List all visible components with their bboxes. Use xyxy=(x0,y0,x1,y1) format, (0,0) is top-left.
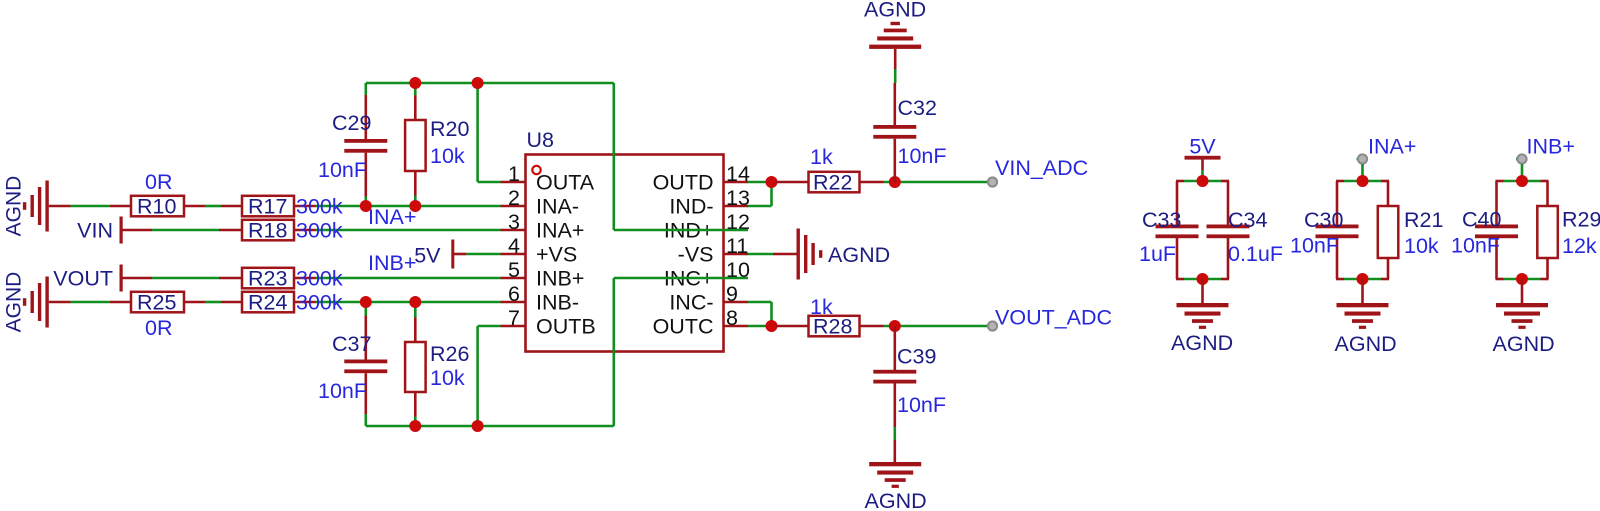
wire R25 to R24 xyxy=(205,301,221,304)
port VIN xyxy=(120,217,153,244)
junction INA- C29 xyxy=(360,200,372,212)
junction bottom rail R26 xyxy=(409,420,421,432)
pin 3 name INA+ xyxy=(536,219,584,243)
svg-text:C39: C39 xyxy=(897,345,936,369)
junction top (INA+ net) xyxy=(1357,175,1369,187)
pin 10 number xyxy=(726,258,750,282)
pin 6 number xyxy=(508,282,520,306)
svg-text:10k: 10k xyxy=(1404,234,1439,258)
pin 8 name OUTC xyxy=(653,315,714,339)
label AGND (middle) xyxy=(828,243,890,267)
svg-text:U8: U8 xyxy=(527,128,555,152)
svg-text:VOUT: VOUT xyxy=(53,267,113,291)
pin 14 number xyxy=(726,162,750,186)
value 10nF (C39) xyxy=(897,393,946,417)
value 300k (R18) xyxy=(296,219,343,243)
resistor R22 xyxy=(776,172,884,193)
pin 4 number xyxy=(508,234,520,258)
svg-text:AGND: AGND xyxy=(1335,332,1397,356)
wire R10 to R17 xyxy=(205,205,221,208)
label AGND (5V net) xyxy=(1171,331,1233,355)
net label INA+ (network) xyxy=(1368,135,1416,159)
pin 10 name INC+ xyxy=(664,267,714,291)
svg-text:AGND: AGND xyxy=(3,176,26,237)
svg-text:+VS: +VS xyxy=(536,243,577,267)
svg-text:300k: 300k xyxy=(296,219,343,243)
pin 8 stub xyxy=(724,325,749,328)
svg-text:7: 7 xyxy=(508,306,520,330)
ground AGND (5V net) xyxy=(1177,279,1229,329)
svg-text:OUTD: OUTD xyxy=(653,171,714,195)
junction INB- R26 xyxy=(409,296,421,308)
wire IND+ riser xyxy=(614,83,748,230)
svg-text:0.1uF: 0.1uF xyxy=(1228,242,1283,266)
junction top (5V net) xyxy=(1197,175,1209,187)
label AGND (INA+ net) xyxy=(1335,332,1397,356)
capacitor C30 xyxy=(1316,181,1359,279)
wire pin1 riser xyxy=(478,83,501,182)
svg-text:10nF: 10nF xyxy=(1451,234,1500,258)
svg-text:5: 5 xyxy=(508,258,520,282)
pin 3 stub xyxy=(501,229,526,232)
resistor R10 xyxy=(110,196,205,217)
pin 11 stub xyxy=(724,253,749,256)
label R22 xyxy=(813,171,852,195)
svg-text:OUTA: OUTA xyxy=(536,171,595,195)
resistor R23 xyxy=(219,268,316,289)
svg-text:AGND: AGND xyxy=(1171,331,1233,355)
pin1 indicator xyxy=(532,166,540,174)
svg-text:R17: R17 xyxy=(248,195,287,219)
ground AGND (top, above C32) xyxy=(869,22,921,69)
pin 7 stub xyxy=(501,325,526,328)
svg-text:C34: C34 xyxy=(1228,208,1267,232)
label C32 xyxy=(898,96,937,120)
wire pin13 feedback xyxy=(748,182,772,206)
junction OUTC node xyxy=(766,320,778,332)
svg-text:300k: 300k xyxy=(296,267,343,291)
svg-text:4: 4 xyxy=(508,234,520,258)
svg-text:10k: 10k xyxy=(430,366,465,390)
pin 2 stub xyxy=(501,205,526,208)
ground AGND (middle, pin11) xyxy=(748,229,822,280)
svg-text:10nF: 10nF xyxy=(897,393,946,417)
wire 5V to pin4 xyxy=(466,253,500,256)
svg-text:R18: R18 xyxy=(248,219,287,243)
label C30 xyxy=(1304,208,1343,232)
pin 4 stub xyxy=(501,253,526,256)
supply 5V (network) xyxy=(1185,156,1221,181)
label R29 xyxy=(1562,208,1600,232)
svg-text:10nF: 10nF xyxy=(898,144,947,168)
label U8 xyxy=(527,128,555,152)
svg-text:VIN: VIN xyxy=(77,219,113,243)
pin 13 number xyxy=(726,186,750,210)
value 10nF (C32) xyxy=(898,144,947,168)
capacitor C34 xyxy=(1207,181,1250,279)
value 10nF (C40) xyxy=(1451,234,1500,258)
wire R18 to pin3 xyxy=(316,229,501,232)
label R20 xyxy=(430,117,469,141)
svg-text:R21: R21 xyxy=(1404,208,1443,232)
value 10k (R20) xyxy=(430,144,465,168)
svg-text:R24: R24 xyxy=(248,291,287,315)
pin 5 number xyxy=(508,258,520,282)
pin 2 name INA- xyxy=(536,195,579,219)
junction top (INB+ net) xyxy=(1516,175,1528,187)
label AGND (left upper) xyxy=(3,176,26,237)
svg-text:C30: C30 xyxy=(1304,208,1343,232)
capacitor C33 xyxy=(1156,181,1199,279)
value 0.1uF (C34) xyxy=(1228,242,1283,266)
junction OUTD node xyxy=(766,176,778,188)
capacitor C39 xyxy=(873,326,916,462)
svg-text:C33: C33 xyxy=(1142,208,1181,232)
supply 5V (pin4) xyxy=(451,240,466,269)
value 10nF (C29) xyxy=(318,158,367,182)
svg-text:AGND: AGND xyxy=(828,243,890,267)
junction VOUT_ADC C39 xyxy=(889,320,901,332)
pin 12 number xyxy=(726,210,750,234)
junction VIN_ADC C32 xyxy=(889,176,901,188)
junction bottom (INA+ net) xyxy=(1357,273,1369,285)
wire AGND to R25 xyxy=(71,301,111,304)
pin 5 name INB+ xyxy=(536,267,584,291)
wire VOUT to R23 xyxy=(152,277,219,280)
resistor R28 xyxy=(776,316,884,337)
net label INB+ (network) xyxy=(1527,135,1575,159)
label R28 xyxy=(813,315,852,339)
pin 14 stub xyxy=(724,181,749,184)
label R18 xyxy=(248,219,287,243)
pin 11 number xyxy=(726,234,748,258)
pin 1 name OUTA xyxy=(536,171,595,195)
resistor R25 xyxy=(110,292,205,313)
wire top rail (INB+ net) xyxy=(1496,180,1549,183)
pin 6 name INB- xyxy=(536,291,579,315)
svg-text:INA+: INA+ xyxy=(368,205,416,229)
label C39 xyxy=(897,345,936,369)
wire top rail xyxy=(366,82,614,85)
svg-text:C37: C37 xyxy=(332,332,371,356)
pin 1 number xyxy=(508,162,520,186)
svg-text:INB+: INB+ xyxy=(1527,135,1575,159)
resistor R24 xyxy=(221,292,316,313)
svg-text:AGND: AGND xyxy=(865,489,927,511)
port INB+ xyxy=(1516,154,1527,181)
svg-text:R10: R10 xyxy=(137,195,176,219)
op-amp U8 xyxy=(526,155,724,352)
label C34 xyxy=(1228,208,1267,232)
pin 9 number xyxy=(726,282,738,306)
svg-text:1: 1 xyxy=(508,162,520,186)
label R26 xyxy=(430,342,469,366)
pin 8 number xyxy=(726,306,738,330)
junction bottom (5V net) xyxy=(1197,273,1209,285)
resistor R21 xyxy=(1378,181,1399,279)
label AGND (top) xyxy=(864,0,926,22)
value 10nF (C37) xyxy=(318,379,367,403)
value 10nF (C30) xyxy=(1290,234,1339,258)
pin 2 number xyxy=(508,186,520,210)
svg-text:10nF: 10nF xyxy=(318,379,367,403)
svg-text:INC-: INC- xyxy=(669,291,713,315)
pin 13 stub xyxy=(724,205,749,208)
svg-text:C29: C29 xyxy=(332,111,371,135)
svg-text:1k: 1k xyxy=(810,145,833,169)
label AGND (bottom) xyxy=(865,489,927,511)
ground AGND (left lower) xyxy=(23,277,71,328)
wire top rail (INA+ net) xyxy=(1336,180,1389,183)
svg-text:R26: R26 xyxy=(430,342,469,366)
label VIN xyxy=(77,219,113,243)
label R25 xyxy=(137,291,176,315)
net label INA+ xyxy=(368,205,416,229)
svg-text:IND-: IND- xyxy=(669,195,713,219)
port INA+ xyxy=(1357,154,1368,181)
port VOUT_ADC xyxy=(987,321,998,330)
wire INC+ riser xyxy=(614,278,748,426)
wire R24 to INB- node xyxy=(316,301,501,304)
value 0R (R10) xyxy=(145,170,172,194)
wire bottom rail (INB+ net) xyxy=(1496,278,1549,281)
svg-text:10k: 10k xyxy=(430,144,465,168)
pin 4 name +VS xyxy=(536,243,577,267)
wire top rail (5V net) xyxy=(1176,180,1229,183)
svg-text:VIN_ADC: VIN_ADC xyxy=(995,156,1088,180)
svg-text:300k: 300k xyxy=(296,195,343,219)
svg-text:VOUT_ADC: VOUT_ADC xyxy=(995,306,1112,330)
pin 3 number xyxy=(508,210,520,234)
wire pin9 feedback xyxy=(748,302,772,326)
resistor R26 xyxy=(405,302,426,426)
svg-text:INA-: INA- xyxy=(536,195,579,219)
svg-text:10nF: 10nF xyxy=(1290,234,1339,258)
pin 7 number xyxy=(508,306,520,330)
ground AGND (bottom, below C39) xyxy=(869,462,921,488)
svg-text:10nF: 10nF xyxy=(318,158,367,182)
wire R23 to pin5 xyxy=(316,277,501,280)
label VOUT xyxy=(53,267,113,291)
net label VIN_ADC xyxy=(995,156,1088,180)
svg-text:1k: 1k xyxy=(810,295,833,319)
pin 12 name IND+ xyxy=(664,219,714,243)
pin 1 stub xyxy=(501,181,526,184)
svg-text:AGND: AGND xyxy=(864,0,926,22)
wire bottom rail xyxy=(366,425,614,428)
svg-text:R20: R20 xyxy=(430,117,469,141)
label AGND (left lower) xyxy=(3,272,26,333)
label R23 xyxy=(248,267,287,291)
capacitor C37 xyxy=(344,302,387,426)
capacitor C29 xyxy=(344,83,387,206)
svg-text:12k: 12k xyxy=(1562,234,1597,258)
svg-text:R29: R29 xyxy=(1562,208,1600,232)
svg-text:2: 2 xyxy=(508,186,520,210)
junction top rail pin1 xyxy=(472,77,484,89)
svg-text:8: 8 xyxy=(726,306,738,330)
value 300k (R23) xyxy=(296,267,343,291)
svg-text:R23: R23 xyxy=(248,267,287,291)
label R10 xyxy=(137,195,176,219)
svg-text:13: 13 xyxy=(726,186,750,210)
resistor R18 xyxy=(219,220,316,241)
svg-text:1uF: 1uF xyxy=(1139,242,1176,266)
label C29 xyxy=(332,111,371,135)
svg-text:0R: 0R xyxy=(145,170,172,194)
capacitor C40 xyxy=(1475,181,1518,279)
value 12k (R29) xyxy=(1562,234,1597,258)
svg-text:11: 11 xyxy=(726,234,748,258)
svg-text:-VS: -VS xyxy=(678,243,714,267)
pin 5 stub xyxy=(501,277,526,280)
resistor R17 xyxy=(221,196,316,217)
wire bottom rail (INA+ net) xyxy=(1336,278,1389,281)
svg-text:INB+: INB+ xyxy=(368,251,416,275)
svg-text:OUTB: OUTB xyxy=(536,315,596,339)
svg-text:14: 14 xyxy=(726,162,750,186)
pin 9 name INC- xyxy=(669,291,713,315)
wire R22 to VIN_ADC xyxy=(884,181,988,184)
svg-text:AGND: AGND xyxy=(3,272,26,333)
ground AGND (left upper) xyxy=(23,181,71,232)
svg-text:6: 6 xyxy=(508,282,520,306)
value 1k (R28) xyxy=(810,295,833,319)
svg-text:R22: R22 xyxy=(813,171,852,195)
wire bottom rail (5V net) xyxy=(1176,278,1229,281)
value 300k (R17) xyxy=(296,195,343,219)
label R21 xyxy=(1404,208,1443,232)
svg-text:INB+: INB+ xyxy=(536,267,584,291)
wire pin7 riser xyxy=(478,326,501,426)
wire VIN to R18 xyxy=(152,229,219,232)
wire R17 to INA- node xyxy=(316,205,501,208)
svg-text:OUTC: OUTC xyxy=(653,315,714,339)
value 1uF (C33) xyxy=(1139,242,1176,266)
svg-text:C32: C32 xyxy=(898,96,937,120)
wire pin8 to junction xyxy=(748,325,776,328)
label R24 xyxy=(248,291,287,315)
svg-text:AGND: AGND xyxy=(1493,332,1555,356)
junction bottom (INB+ net) xyxy=(1516,273,1528,285)
junction top rail R20 xyxy=(409,77,421,89)
net label INB+ xyxy=(368,251,416,275)
junction bottom rail pin7 xyxy=(472,420,484,432)
pin 6 stub xyxy=(501,301,526,304)
svg-text:9: 9 xyxy=(726,282,738,306)
junction INB- C37 xyxy=(360,296,372,308)
svg-text:5V: 5V xyxy=(414,244,441,268)
svg-text:0R: 0R xyxy=(145,316,172,340)
label R17 xyxy=(248,195,287,219)
capacitor C32 xyxy=(873,69,916,182)
value 1k (R22) xyxy=(810,145,833,169)
ground AGND (INA+ net) xyxy=(1337,279,1389,329)
svg-text:C40: C40 xyxy=(1462,208,1501,232)
label C40 xyxy=(1462,208,1501,232)
pin 7 name OUTB xyxy=(536,315,596,339)
label 5V (pin4) xyxy=(414,244,441,268)
value 300k (R24) xyxy=(296,291,343,315)
port VIN_ADC xyxy=(987,177,998,186)
resistor R29 xyxy=(1537,181,1558,279)
svg-text:5V: 5V xyxy=(1189,135,1216,159)
wire R28 to VOUT_ADC xyxy=(884,325,988,328)
svg-text:3: 3 xyxy=(508,210,520,234)
pin 11 name -VS xyxy=(678,243,714,267)
value 10k (R21) xyxy=(1404,234,1439,258)
net label VOUT_ADC xyxy=(995,306,1112,330)
junction INA- R20 xyxy=(409,200,421,212)
resistor R20 xyxy=(405,83,426,206)
pin 14 name OUTD xyxy=(653,171,714,195)
label 5V (network) xyxy=(1189,135,1216,159)
svg-text:INA+: INA+ xyxy=(536,219,584,243)
svg-text:R25: R25 xyxy=(137,291,176,315)
wire pin14 to junction xyxy=(748,181,776,184)
pin 9 stub xyxy=(724,301,749,304)
pin 13 name IND- xyxy=(669,195,713,219)
value 0R (R25) xyxy=(145,316,172,340)
svg-text:300k: 300k xyxy=(296,291,343,315)
port VOUT xyxy=(120,265,153,292)
svg-text:INA+: INA+ xyxy=(1368,135,1416,159)
label C37 xyxy=(332,332,371,356)
wire AGND to R10 xyxy=(71,205,111,208)
label AGND (INB+ net) xyxy=(1493,332,1555,356)
label C33 xyxy=(1142,208,1181,232)
value 10k (R26) xyxy=(430,366,465,390)
svg-text:INB-: INB- xyxy=(536,291,579,315)
ground AGND (INB+ net) xyxy=(1496,279,1548,329)
